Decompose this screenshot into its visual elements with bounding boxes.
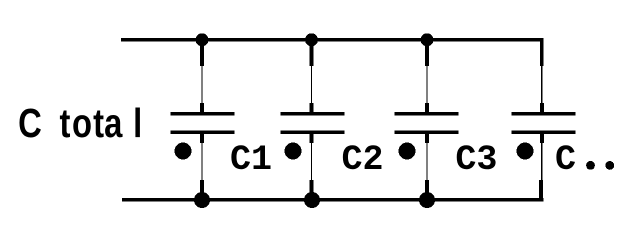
- node: bottom junction dot 2: [304, 192, 320, 208]
- capacitor C3: [395, 112, 459, 134]
- wire: C3 bottom lead: [425, 134, 429, 200]
- svg-text:C3: C3: [455, 140, 497, 180]
- node: top junction dot 2: [305, 33, 318, 46]
- polarity dot C2: [285, 143, 302, 160]
- svg-text:C1: C1: [230, 140, 272, 180]
- wire: C3 top lead: [425, 40, 429, 113]
- capacitor C4: [512, 112, 576, 134]
- svg-text:C: C: [555, 140, 576, 180]
- label C..: [555, 140, 614, 180]
- svg-text:C2: C2: [342, 140, 384, 180]
- capacitor C2: [281, 112, 345, 134]
- wire: C1 bottom lead: [200, 134, 204, 200]
- node: top junction dot 1: [196, 33, 209, 46]
- wire: C2 top lead: [310, 40, 314, 113]
- wire: C4 top lead (right corner drop): [540, 38, 544, 113]
- svg-text:C total: C total: [18, 100, 142, 146]
- polarity dot C3: [399, 143, 416, 160]
- node: bottom junction dot 3: [419, 192, 435, 208]
- wire: C1 top lead: [200, 40, 204, 113]
- node: bottom junction dot 1: [194, 192, 210, 208]
- node: top junction dot 3: [421, 33, 434, 46]
- wire: bottom rail: [122, 198, 544, 202]
- capacitor C1: [171, 112, 235, 134]
- wire: top rail: [121, 38, 544, 42]
- wire: C4 bottom lead (right corner): [539, 134, 544, 202]
- polarity dot C4: [517, 143, 534, 160]
- polarity dot C1: [175, 143, 192, 160]
- wire: C2 bottom lead: [310, 134, 314, 200]
